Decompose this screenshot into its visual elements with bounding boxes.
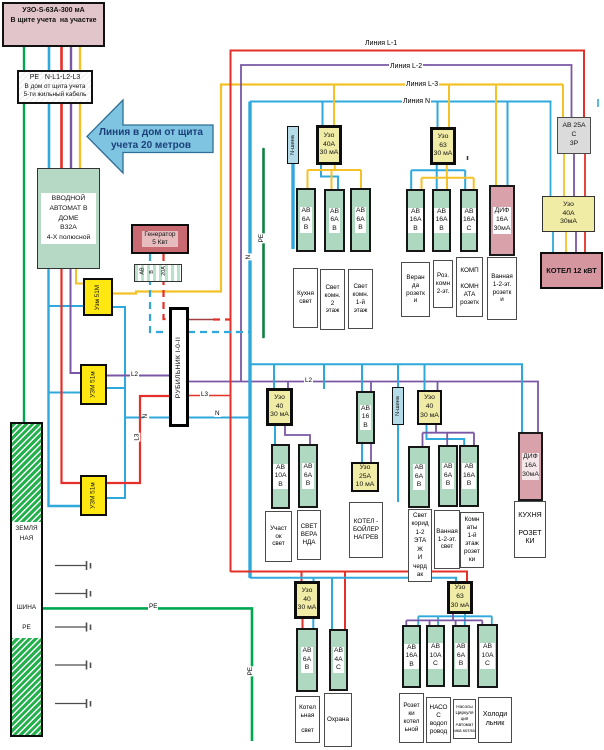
wire N tap to UZM1 [49, 305, 84, 307]
label rooms floor1 sockets [460, 512, 484, 568]
wire N blue UZO40 M1 to AB10 [274, 425, 276, 445]
wire N blue drop to DIF1 [507, 102, 509, 187]
ground electrode 2 [55, 589, 91, 598]
net label L3 rotated on riser [134, 433, 140, 442]
net label L3 right of switch [200, 392, 209, 398]
wire N blue drop to UZO63 first-floor [437, 102, 439, 128]
label guard [324, 693, 352, 747]
label bathroom light [434, 510, 460, 569]
breaker AB 6A B bathroom light [438, 445, 458, 507]
ground electrode 1 [55, 561, 91, 570]
wire generator L dark link right of switch [188, 319, 213, 321]
wire N blue drop to AB16 boiler [361, 364, 363, 392]
wire L2 purple riser to line L-2 bus and boiler branch [241, 65, 572, 382]
label kotel-boiler heater [349, 502, 383, 558]
wire N blue stub below N-bus2 [397, 424, 399, 502]
label kitchen light [293, 268, 318, 328]
wire N blue drop to AB4 guard [331, 578, 333, 630]
wire L1 red drop to UZO40 M3 [301, 572, 303, 583]
cable label box PE N-L1-L2-L3 [17, 70, 93, 104]
wire generator N dashed blue [150, 254, 168, 332]
wire L3 yellow from UZM1 to riser and line L-3 bus [112, 85, 563, 294]
net label Linia L-1 [364, 40, 398, 47]
label corridor light floors [408, 509, 432, 582]
wire L1 purple yoke UZO63 bottom to breakers [406, 613, 482, 626]
wire generator L dashed red [164, 254, 169, 319]
wire L2 purple drop to UZO40 M2 [437, 382, 439, 392]
net label L2 on lower bus [304, 378, 313, 384]
net label N rotated on riser [246, 254, 252, 261]
breaker AB 4A C guard [329, 629, 348, 691]
net label N right of switch [214, 411, 221, 417]
wire N tap to UZM2 [49, 392, 81, 394]
breaker AB 10A C pump [426, 625, 445, 687]
input breaker B32A house [37, 168, 100, 269]
wire L3 yellow drop to AB25 [562, 85, 564, 119]
wire N blue from input breaker down to UZM3 with taps [49, 268, 81, 506]
wire N blue stub below N-bus1 [291, 163, 294, 249]
wire L1 red drop to AB4 guard [344, 572, 346, 631]
wire L3 yellow drop to UZO40A first-floor [333, 85, 335, 127]
wire N blue from UZM1 to N riser x125 [106, 307, 125, 498]
breaker AB 6A B kitchen light [296, 188, 316, 252]
breaker AB 6A B light floor2 [324, 189, 345, 252]
wire N blue from UZM2 to riser [106, 387, 125, 389]
wire L1 red riser full height [230, 51, 232, 573]
breaker AB 16A B room sockets floor2 [432, 189, 451, 252]
wire L1 red UZO40 M3 to AB6 boiler-light [302, 618, 304, 629]
wire L2 purple feed to input breaker [70, 47, 72, 169]
ground electrode 5 [55, 699, 91, 708]
wire L3 yellow UZO40 to boiler [565, 231, 567, 253]
wire L1 red from input breaker to UZM3 [62, 268, 81, 483]
wire generator L dashed red to L1 riser [213, 318, 230, 320]
wire generator N dashed blue right of switch [188, 331, 250, 333]
wire L2 purple from UZM2 to main switch [106, 375, 169, 377]
DIF breaker 16A 30mA bathroom sockets [489, 185, 515, 256]
boiler KOTEL 12kW [540, 252, 603, 289]
wire N blue drop to UZO40A first-floor [322, 102, 324, 127]
breaker AB 16 B boiler-heater [356, 391, 375, 444]
wire L2 purple AB25 to UZO40 boiler [573, 153, 575, 197]
label light room floor1 [348, 269, 373, 329]
RCD UZO 40 30mA boiler-room M3 [294, 581, 320, 619]
label bathroom sockets floors1-2 [487, 257, 517, 320]
label kitchen sockets [514, 501, 546, 558]
breaker AB 16A B veranda sockets [406, 189, 425, 252]
surge protector UZM 51M no.3 [80, 475, 107, 516]
wire PE green from street UZO to earth bus [23, 47, 25, 422]
label veranda sockets [401, 262, 430, 317]
wire N blue lower bus to kitchen DIF [250, 364, 522, 433]
RCD UZO 40A 30mA first-floor lights [316, 125, 342, 165]
wire N blue yoke from UZO63 to socket breakers [411, 164, 465, 190]
wire N blue stub on lower bus [323, 364, 325, 389]
breaker AB 6A B light floor1 [350, 188, 371, 252]
wire N blue drop to UZO40 M1 [273, 364, 275, 389]
wire N blue riser thick [248, 102, 251, 579]
wire N blue UZO40 M2 to AB16 room sockets [427, 424, 465, 446]
DIF breaker 16A 30mA kitchen sockets [518, 432, 543, 501]
breaker AB 25A C 3P boiler [557, 117, 591, 154]
street panel UZO-S box [2, 2, 105, 47]
generator breaker AB B 20A striped [134, 264, 182, 282]
wire L3 yellow feed to input breaker [79, 47, 81, 169]
wire N blue line bus from riser to boiler UZO40 [250, 101, 552, 103]
wire L1 red line bus to AB25 [230, 51, 585, 118]
label pumps circulation automation [453, 699, 476, 739]
wire N blue UZO40 M3 to AB6 boiler-light [312, 618, 314, 629]
wire L2 purple UZO40 M1 to AB6 veranda [285, 425, 310, 445]
wire N blue bottom bus to UZO63 bottom [250, 578, 456, 582]
wire PE green bottom bus [42, 608, 252, 741]
breaker AB 16A B room sockets floor1 [459, 445, 479, 507]
wire N blue drop to UZO40 M3 [313, 578, 315, 582]
wire N blue drop to N-bus2 [397, 364, 399, 388]
wire L1 red UZO40 to boiler [584, 231, 586, 253]
wire N blue feed to input breaker [48, 47, 51, 169]
wire PE green stub riser [262, 149, 265, 337]
wire L3 yellow from input breaker to UZM1 [76, 268, 83, 284]
wire L1 red bottom bus from riser [231, 572, 468, 583]
label veranda light [297, 510, 321, 560]
net label Linia L-2 [389, 63, 423, 70]
ground electrode 4 [55, 661, 91, 670]
wire N blue drop to boiler UZO40 [550, 102, 552, 198]
wire N blue from main switch to N riser [188, 417, 250, 419]
RCD UZO 40A 30mA boiler [542, 196, 595, 232]
label sockets room floor2 [433, 260, 453, 308]
surge protector UZM 51M no.1 [83, 278, 113, 316]
breaker AB 6A B veranda light [298, 444, 318, 508]
wire L3 yellow yoke from UZO40A to light breakers [308, 164, 362, 190]
net label PE on bottom bus [148, 604, 158, 610]
RCD UZO 40 30mA ground-floor M2 [417, 390, 442, 425]
wire L3 red from UZM3 up to main switch [106, 396, 169, 483]
label pump water supply [426, 697, 451, 743]
wire N blue UZO40 to boiler [552, 231, 554, 253]
net label N rotated near switch [143, 413, 149, 420]
wire L3 yellow drop to UZO63 first-floor [448, 85, 450, 128]
breaker AB 10A B yard light [271, 444, 290, 509]
wire L2 purple yoke UZO40 M2 to breakers [423, 424, 475, 447]
wire N blue yoke UZO63 bottom to breakers [418, 613, 492, 626]
RCD UZO 63 30mA first-floor sockets [430, 127, 456, 165]
wire N tap from riser x125 to main switch [125, 417, 169, 419]
wire L3 yellow yoke from UZO63 to socket breakers [422, 164, 474, 190]
main switch RUBILNIK I-0-II [169, 307, 189, 427]
wire N blue AB16 to UZO25 [361, 443, 363, 463]
wire N blue drop to UZO40 M2 [424, 364, 426, 391]
label boiler-room sockets [399, 693, 424, 743]
label boiler-room light [295, 696, 320, 743]
breaker AB 16A B boiler-room sockets [402, 625, 421, 688]
wire L2 purple from input breaker to UZM2 [71, 268, 81, 373]
surge protector UZM 51M no.2 [80, 364, 107, 405]
net label PE rotated on green stub [259, 233, 265, 243]
breaker AB 16A C computer [460, 189, 478, 252]
node N end tick [597, 99, 599, 107]
wire L2 purple bus from main switch to kitchen DIF [188, 382, 538, 434]
wire L3 yellow drop to AB25 below line L-3 handled above; AB25 to UZO40 boiler [563, 153, 565, 197]
wire L2 purple drop to AB16 boiler [370, 382, 372, 393]
net label PE rotated on bottom riser [248, 666, 254, 676]
net label L2 at switch [130, 372, 139, 378]
earth bus bar ZEMLYANAYA SHINA PE [10, 422, 43, 737]
wire N blue from UZO40A to light breaker 2 [321, 164, 338, 190]
label fridge [478, 697, 512, 743]
node tick near UZO63 [467, 156, 469, 160]
breaker AB 6A B pumps-automation [452, 625, 470, 687]
breaker AB 6A B corridor light [408, 446, 430, 508]
label computer room sockets [456, 257, 483, 317]
wire L2 purple AB16 to UZO25 [370, 443, 372, 463]
wire L3 red from main switch to L1 riser [188, 395, 231, 397]
RCD UZO 25A 10mA boiler-heater [351, 462, 379, 492]
wire L2 purple UZO40 to boiler [575, 231, 577, 253]
ground electrode 3 [55, 623, 91, 632]
breaker AB 6A B boiler-room light [296, 628, 318, 692]
generator box [131, 224, 189, 254]
N bus bar no.1 [287, 126, 299, 164]
RCD UZO 63 30mA boiler-room [447, 581, 473, 614]
N bus bar no.2 [392, 387, 404, 425]
net label Linia L-3 [405, 81, 439, 88]
label light room floor2 [320, 269, 345, 330]
breaker AB 10A C fridge [477, 624, 498, 688]
net label Linia N [402, 98, 431, 105]
wire L1 red AB25 to UZO40 boiler [584, 153, 586, 197]
wire L1 red feed to input breaker [60, 47, 63, 169]
wire L3 yellow drop to DIF1 [495, 85, 497, 187]
RCD UZO 40 30mA ground-floor lights M1 [266, 388, 293, 426]
wire L2 purple drop to UZO40 M1 [287, 382, 289, 390]
label yard light [265, 511, 292, 562]
